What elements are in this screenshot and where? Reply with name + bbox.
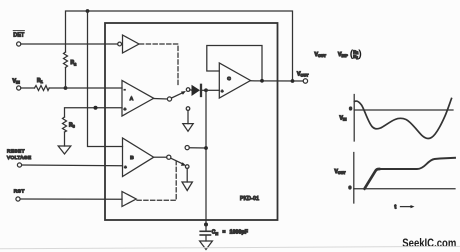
svg-text:B: B [130, 155, 134, 160]
node hold line B throw [204, 146, 208, 150]
switch S1 pole [167, 97, 171, 101]
dashed control line DET switch [140, 44, 179, 87]
svg-text:0: 0 [349, 106, 352, 112]
resistor R1 [35, 86, 50, 91]
switch S1 arm [172, 93, 184, 98]
svg-text:R2: R2 [71, 60, 77, 66]
wire R3 to ground [64, 132, 66, 146]
dashed control line RST switch [137, 162, 176, 201]
capacitor CH [205, 225, 207, 231]
node rail junction [86, 9, 90, 13]
svg-text:+: + [124, 165, 127, 170]
wire R1 to node [49, 87, 65, 89]
scan edge artifacts [0, 246, 460, 248]
svg-text:R1: R1 [353, 54, 358, 60]
terminal DET [17, 42, 21, 46]
svg-text:0: 0 [349, 185, 352, 191]
terminal RST [16, 197, 20, 201]
wire DET to buffer [21, 43, 118, 45]
wire R2 to VIN node [65, 68, 67, 89]
resistor R3 [63, 117, 67, 132]
wire C feedback loop [207, 46, 262, 81]
wire rail to B upper input [88, 11, 123, 147]
switch S1 ground contact [186, 107, 190, 111]
graph VIN axes [353, 95, 355, 142]
wire VIN to R1 [21, 87, 35, 89]
switch S2 throw contact to hold [185, 146, 189, 150]
wire VIN node to A upper input [66, 87, 123, 89]
node on A lower input line [94, 106, 98, 110]
op-amp A [122, 81, 154, 117]
svg-text:C: C [227, 76, 231, 81]
op-amp C [219, 63, 250, 98]
wire A output [154, 98, 168, 101]
wire B output [154, 156, 167, 158]
svg-text:VOUT: VOUT [297, 72, 309, 78]
wire hold node to C lower input [206, 89, 219, 91]
svg-text:R1: R1 [37, 78, 43, 84]
wire RESET to B lower input [22, 164, 123, 167]
terminal RESET VOLTAGE [17, 163, 21, 167]
svg-text:PKD-01: PKD-01 [240, 196, 259, 202]
op-amp B [123, 138, 154, 177]
node diode to C input [204, 88, 208, 92]
svg-text:VIN: VIN [13, 78, 21, 84]
switch S2 arm [171, 158, 183, 164]
terminal VIN [17, 86, 21, 90]
svg-text:VINP: VINP [338, 52, 348, 58]
svg-text:VOUT: VOUT [335, 169, 347, 175]
svg-text:VOUT: VOUT [315, 52, 327, 58]
node CH junction [204, 223, 208, 227]
curve VOUT waveform [365, 169, 380, 189]
wire hold node vertical [205, 90, 207, 224]
terminal VOUT [303, 79, 307, 83]
ground CH [200, 241, 213, 250]
svg-text:): ) [358, 48, 362, 60]
wire R3 line to A lower input [65, 108, 123, 117]
node C output feedback [260, 79, 264, 83]
wire RST to buffer [20, 198, 122, 200]
svg-text:1000pF: 1000pF [230, 230, 248, 236]
svg-text:t: t [395, 204, 397, 210]
svg-text:RESET: RESET [7, 149, 25, 154]
svg-text:+: + [221, 89, 224, 94]
svg-text:VOLTAGE: VOLTAGE [7, 155, 31, 160]
ground R3 [58, 146, 71, 154]
svg-text:CH: CH [212, 230, 219, 236]
buffer U-RST [122, 192, 136, 207]
svg-text:SeekIC.com: SeekIC.com [402, 237, 456, 250]
node VOUT rail [291, 79, 295, 83]
svg-text:DET: DET [13, 33, 25, 39]
curve VIN waveform [355, 99, 452, 139]
svg-text:R3: R3 [69, 123, 75, 129]
svg-text:=: = [223, 229, 226, 234]
buffer U-DET [123, 35, 140, 53]
svg-text:-: - [124, 86, 126, 91]
wire top feedback rail [66, 11, 293, 81]
switch S1 throw contact [186, 88, 190, 92]
graph VOUT axes [353, 153, 355, 204]
svg-text:A: A [130, 96, 134, 101]
ground switch S1 [183, 124, 193, 132]
resistor R2 [64, 52, 68, 68]
wire C output [251, 80, 304, 82]
svg-text:RST: RST [14, 188, 25, 194]
node R1 R2 junction [64, 86, 68, 90]
svg-text:VIN: VIN [340, 115, 347, 121]
switch S2 pole [167, 155, 171, 159]
svg-text:+: + [124, 106, 127, 111]
IC body box PKD-01 [105, 23, 278, 220]
ground switch S2 [182, 182, 192, 191]
buffer U-DET input bubble [118, 42, 122, 46]
switch S2 ground contact [185, 165, 189, 169]
diode D1 [190, 89, 192, 91]
